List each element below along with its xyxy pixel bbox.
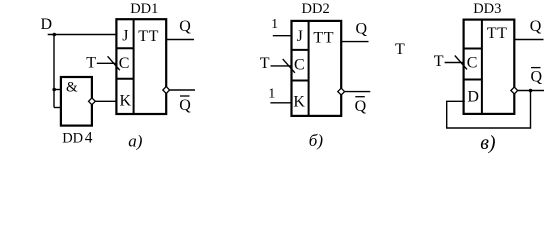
svg-text:б): б) xyxy=(309,131,324,150)
svg-text:J: J xyxy=(297,28,303,45)
dynamic edge slash on C input xyxy=(283,59,295,73)
wire gate bottom input stub xyxy=(54,107,62,109)
wire D to J input xyxy=(48,34,118,36)
svg-text:C: C xyxy=(467,55,478,72)
bubble Q-bar inversion xyxy=(511,87,518,94)
bubble Q-bar inversion xyxy=(163,87,170,94)
svg-text:&: & xyxy=(66,79,78,95)
junction on D wire xyxy=(53,33,57,37)
wire Q-bar output xyxy=(518,90,544,92)
svg-text:Q: Q xyxy=(355,98,367,115)
bubble Q-bar inversion xyxy=(338,88,345,95)
wire 1 to K input xyxy=(270,102,292,104)
wire 1 to J input xyxy=(273,35,293,37)
svg-text:K: K xyxy=(120,92,132,109)
junction at gate top input xyxy=(52,88,56,92)
svg-text:4: 4 xyxy=(85,129,93,146)
wire vertical from D junction down to gate inputs xyxy=(53,35,55,108)
svg-text:D: D xyxy=(41,16,53,33)
svg-text:K: K xyxy=(293,94,305,111)
svg-text:T: T xyxy=(434,53,444,70)
svg-text:Q: Q xyxy=(179,18,191,35)
wire T to C input xyxy=(97,62,117,64)
svg-text:Q: Q xyxy=(531,69,543,86)
svg-text:TT: TT xyxy=(313,30,334,47)
gate DD4 (AND with inverted output) xyxy=(61,77,92,126)
wire gate top input stub xyxy=(54,89,62,91)
wire T to C input xyxy=(271,65,293,67)
svg-text:Q: Q xyxy=(530,18,542,35)
svg-text:T: T xyxy=(86,55,96,72)
svg-text:в): в) xyxy=(480,132,496,154)
svg-text:T: T xyxy=(395,41,405,58)
svg-text:DD1: DD1 xyxy=(130,1,158,17)
svg-text:DD2: DD2 xyxy=(302,1,330,17)
svg-text:C: C xyxy=(294,56,305,73)
svg-text:DD: DD xyxy=(62,130,83,146)
flip-flop DD1 body xyxy=(116,19,166,114)
svg-text:Q: Q xyxy=(356,20,368,37)
svg-text:Q: Q xyxy=(179,97,191,114)
svg-text:а): а) xyxy=(128,132,143,151)
svg-text:C: C xyxy=(119,55,130,72)
svg-text:DD3: DD3 xyxy=(473,1,501,17)
svg-text:J: J xyxy=(122,27,128,44)
svg-text:1: 1 xyxy=(268,87,275,102)
svg-text:TT: TT xyxy=(487,25,508,42)
wire Q-bar output xyxy=(345,91,371,93)
label Q-bar xyxy=(355,97,367,115)
dynamic edge slash on C input xyxy=(455,56,467,70)
wire T to C input xyxy=(445,62,465,64)
flip-flop DD3 body xyxy=(464,20,515,114)
wire feedback from Q-bar down, left and up to D input xyxy=(447,91,531,129)
wire Q output xyxy=(167,39,194,41)
wire Q-bar output xyxy=(170,89,195,91)
svg-text:T: T xyxy=(260,55,270,72)
wire Q output xyxy=(342,41,369,43)
wire Q output xyxy=(515,39,544,41)
svg-text:TT: TT xyxy=(138,28,159,45)
svg-text:1: 1 xyxy=(271,17,278,32)
label Q-bar xyxy=(531,68,543,86)
bubble DD4 output inversion xyxy=(89,98,96,105)
svg-text:D: D xyxy=(467,89,479,106)
flip-flop DD2 body xyxy=(292,21,342,116)
dynamic edge slash on C input xyxy=(108,56,120,70)
label Q-bar xyxy=(179,96,191,114)
wire gate output to K input xyxy=(96,100,118,102)
junction on Q-bar wire (feedback tap) xyxy=(529,89,533,93)
